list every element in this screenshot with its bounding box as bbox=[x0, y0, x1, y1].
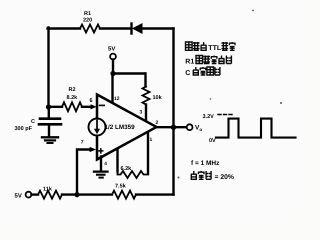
svg-text:220: 220 bbox=[83, 17, 92, 23]
svg-text:1: 1 bbox=[150, 137, 153, 143]
svg-text:0V: 0V bbox=[209, 138, 216, 144]
svg-text:R1: R1 bbox=[84, 11, 91, 17]
svg-text:12: 12 bbox=[114, 96, 120, 102]
svg-text:6.2k: 6.2k bbox=[121, 166, 133, 172]
svg-text:2: 2 bbox=[156, 120, 159, 126]
svg-text:5V: 5V bbox=[15, 193, 22, 200]
svg-text:= 20%: = 20% bbox=[215, 174, 234, 181]
svg-text:300 pF: 300 pF bbox=[15, 126, 33, 132]
svg-text:3.2V: 3.2V bbox=[203, 114, 215, 120]
svg-text:f = 1 MHz: f = 1 MHz bbox=[191, 160, 220, 167]
svg-text:3: 3 bbox=[140, 110, 143, 116]
svg-text:C: C bbox=[31, 119, 35, 125]
svg-text:R2: R2 bbox=[69, 87, 76, 93]
svg-text:8.2k: 8.2k bbox=[67, 95, 79, 101]
svg-text:1: 1 bbox=[116, 156, 119, 162]
svg-text:11k: 11k bbox=[43, 187, 53, 193]
svg-text:5V: 5V bbox=[108, 46, 115, 53]
svg-text:7.5k: 7.5k bbox=[115, 184, 127, 190]
svg-text:7: 7 bbox=[81, 140, 84, 146]
svg-text:1/2 LM359: 1/2 LM359 bbox=[105, 124, 136, 131]
svg-text:4: 4 bbox=[104, 161, 107, 167]
svg-text:10k: 10k bbox=[153, 95, 163, 101]
svg-text:C: C bbox=[185, 70, 190, 77]
svg-text:R1: R1 bbox=[185, 59, 194, 66]
svg-text:6: 6 bbox=[90, 98, 93, 104]
svg-text:TTL: TTL bbox=[208, 45, 222, 52]
